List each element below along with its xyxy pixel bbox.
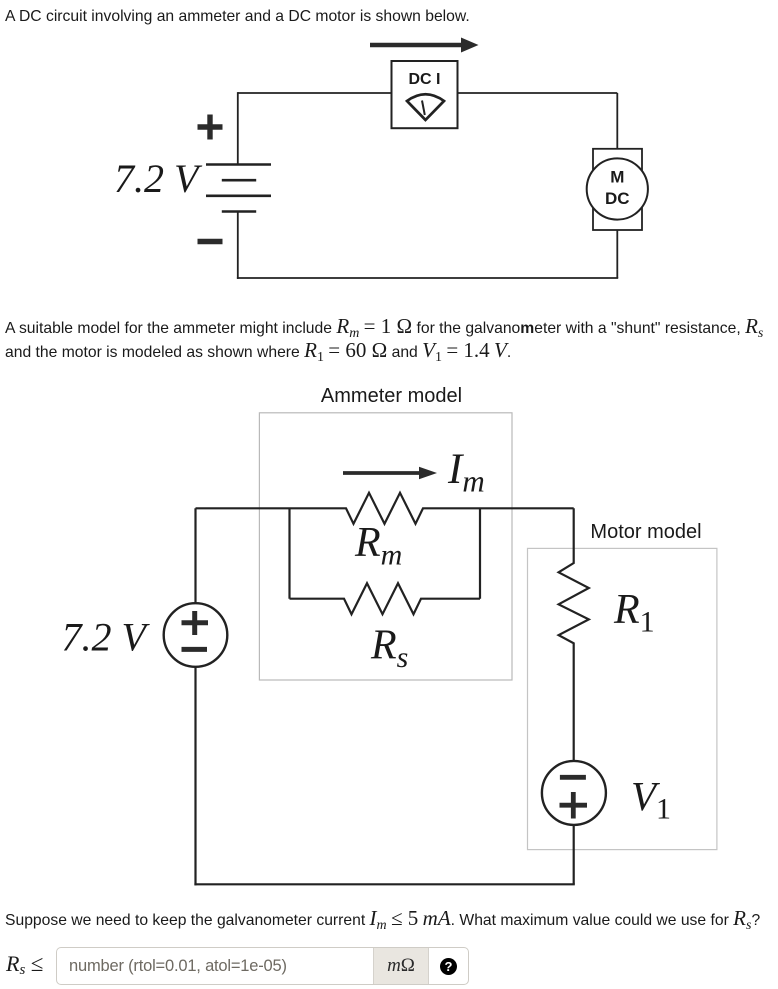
svg-text:M: M [610, 168, 624, 187]
svg-text:DC: DC [605, 189, 630, 208]
svg-text:Motor model: Motor model [590, 521, 701, 543]
svg-text:7.2 V: 7.2 V [62, 614, 151, 659]
svg-text:Im: Im [447, 446, 485, 499]
svg-text:Ammeter model: Ammeter model [321, 385, 462, 407]
svg-text:Rs: Rs [370, 623, 408, 675]
svg-text:R1: R1 [613, 587, 655, 639]
svg-text:DC I: DC I [409, 71, 441, 88]
svg-text:V1: V1 [631, 773, 671, 826]
svg-text:Rm: Rm [354, 520, 402, 572]
svg-text:7.2 V: 7.2 V [114, 156, 203, 201]
